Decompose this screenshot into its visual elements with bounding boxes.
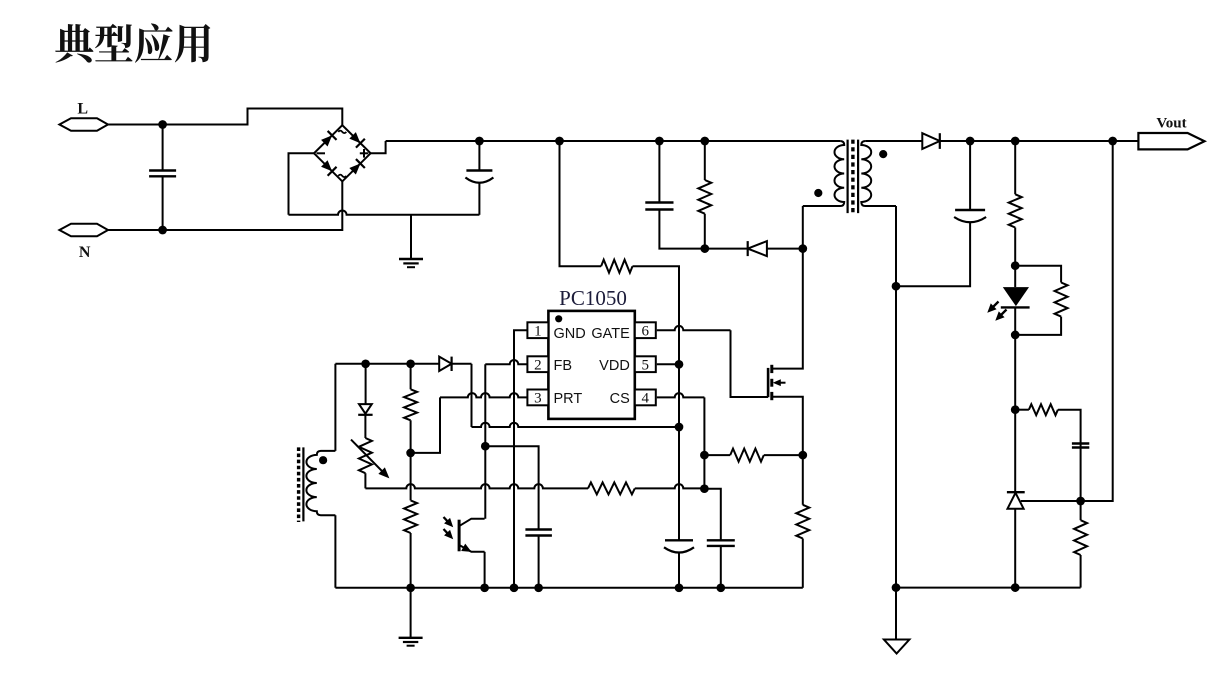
svg-text:3: 3 [534, 391, 542, 407]
pin 5 box [635, 356, 656, 372]
resistor R3 (LED series) [1014, 141, 1016, 194]
node gnd pin1 [510, 583, 519, 592]
diode D2 (output rectifier) [922, 133, 940, 149]
transformer T1 core [846, 140, 848, 214]
transistor Q2 (optocoupler photo-transistor) [458, 520, 461, 552]
wire long net with hops [365, 484, 588, 488]
wire aux top [335, 363, 365, 365]
svg-text:PC1050: PC1050 [559, 286, 627, 310]
shunt regulator U2 (TL431) [1014, 410, 1016, 492]
wire primary bottom to drain [802, 206, 804, 249]
svg-text:PRT: PRT [554, 391, 583, 407]
node VDD aux-diode junction [675, 423, 684, 432]
wire aux bottom to gnd rail [334, 515, 336, 588]
svg-text:4: 4 [642, 391, 650, 407]
wire L to bridge [108, 109, 342, 126]
node N-cap junction [158, 226, 167, 235]
diode D1 (clamp) [705, 248, 748, 250]
resistor R11 (CS filter) [704, 454, 730, 456]
node pin1 marker dot [555, 315, 562, 322]
node aux divider B [406, 359, 415, 368]
transformer T1 secondary winding [861, 141, 896, 206]
wire bridge DC- rail [289, 210, 480, 214]
ground (secondary, chassis triangle) [895, 588, 897, 640]
transformer T1 aux core [302, 447, 304, 521]
svg-text:Vout: Vout [1156, 116, 1186, 132]
resistor R2 (clamp/snubber) [704, 141, 706, 180]
svg-text:GATE: GATE [591, 326, 630, 342]
ground (primary rail) [410, 588, 412, 638]
terminal Vout [1138, 133, 1204, 149]
resistor R10 (horizontal) [588, 482, 635, 494]
node secondary gnd left [892, 583, 901, 592]
capacitor C7 (CS filter) [707, 539, 735, 541]
capacitor C5 (VDD electrolytic) [665, 539, 693, 541]
wire reg reference [1021, 141, 1113, 501]
pin 1 box [527, 322, 548, 338]
node reg anode gnd [1011, 583, 1020, 592]
node gnd comp cap [534, 583, 543, 592]
wire pin6 GATE [657, 326, 731, 330]
node comp network [1011, 405, 1020, 414]
node snubber RC junction [700, 244, 709, 253]
svg-text:VDD: VDD [599, 358, 630, 374]
wire secondary ground rail [896, 587, 1081, 589]
node gnd aux-res [406, 583, 415, 592]
wire pin2 FB [485, 360, 527, 364]
wire output rail [940, 140, 1139, 142]
node CS resistor left [700, 451, 709, 460]
wire pin3 PRT [440, 393, 527, 397]
transformer T1 aux winding [306, 451, 335, 515]
wire secondary top [865, 140, 922, 142]
wire bridge DC+ to rail [371, 141, 386, 153]
resistor R7 (adjustable/varistor) [364, 415, 366, 438]
node L-cap junction [158, 120, 167, 129]
resistor R8 (aux divider upper) [410, 364, 412, 390]
node Vout sense [1108, 137, 1117, 146]
transistor Q1 (power MOSFET) [767, 368, 770, 397]
capacitor C4 (compensation) [1072, 442, 1089, 444]
terminal N [59, 224, 108, 236]
node output cap [966, 137, 975, 146]
resistor R9 (aux divider lower) [410, 453, 412, 501]
pin 6 box [635, 322, 656, 338]
diode D4 (aux rectifier to VDD) [411, 363, 440, 365]
resistor R6 (reg lower) [1080, 501, 1082, 520]
pin 4 box [635, 390, 656, 406]
node gnd cs cap [716, 583, 725, 592]
svg-text:GND: GND [554, 326, 586, 342]
capacitor C6 (FB compensation) [485, 446, 538, 529]
ground (primary DC- earth) [410, 215, 412, 259]
svg-text:1: 1 [534, 323, 542, 339]
node secondary return [892, 282, 901, 291]
transformer T1 primary winding [803, 141, 844, 206]
svg-text:L: L [77, 101, 88, 118]
capacitor C3 (output electrolytic) [969, 141, 971, 210]
svg-text:2: 2 [534, 357, 542, 373]
wire VDD vertical [678, 364, 680, 540]
diode D5 (aux divider) [365, 364, 367, 404]
node aux phase dot [319, 456, 327, 464]
resistor R12 (source sense) [802, 455, 804, 505]
node drain/clamp junction [798, 244, 807, 253]
capacitor CX1 (input X-cap) [162, 125, 164, 171]
svg-text:FB: FB [554, 358, 573, 374]
node gnd opto emitter [480, 583, 489, 592]
node secondary phase dot [879, 150, 887, 158]
node LED anode [1011, 261, 1020, 270]
wire pin5 VDD [657, 363, 679, 365]
wire N to bridge [108, 181, 342, 230]
node PRT junction [406, 449, 415, 458]
wire adj resistor to PRT net [364, 473, 366, 488]
wire HV rail [386, 140, 841, 142]
node bulk cap [475, 137, 484, 146]
bridge rectifier BR1 [314, 125, 371, 181]
opto light arrows [444, 517, 451, 525]
node primary phase dot [814, 189, 822, 197]
resistor R5 (compensation) [1015, 409, 1029, 411]
svg-text:CS: CS [610, 391, 630, 407]
wire secondary bottom return [895, 206, 897, 588]
svg-text:6: 6 [642, 323, 650, 339]
node aux divider A [361, 359, 370, 368]
node CS filter junction [700, 484, 709, 493]
resistor R1 (startup, HV to VDD) [560, 141, 602, 266]
LED D3 (optocoupler emitter) [1014, 266, 1016, 287]
node FB branch [481, 442, 490, 451]
svg-text:N: N [79, 244, 91, 261]
node LED cathode [1011, 331, 1020, 340]
node snubber res tap [700, 137, 709, 146]
pin 3 box [527, 390, 548, 406]
node ref/comp junction [1076, 497, 1085, 506]
node VDD pin [675, 360, 684, 369]
node source sense [798, 451, 807, 460]
node gnd vdd cap [675, 583, 684, 592]
capacitor C1 (bulk electrolytic) [478, 141, 480, 171]
wire pin1 GND down [514, 330, 527, 588]
terminal L [59, 118, 108, 130]
capacitor C2 (clamp/snubber) [658, 141, 660, 203]
node startup resistor tap [555, 137, 564, 146]
wire aux diode to VDD [452, 363, 472, 365]
svg-text:5: 5 [642, 357, 650, 373]
wire pin4 CS [657, 393, 705, 397]
pin 2 box [527, 356, 548, 372]
node feedback divider top [1011, 137, 1020, 146]
resistor R4 (parallel to LED) [1015, 266, 1061, 283]
node snubber cap tap [655, 137, 664, 146]
title 典型应用 [55, 23, 210, 62]
wire primary ground rail [335, 587, 802, 589]
wire LED cathode to reg [1014, 335, 1016, 410]
wire CS filter down [704, 455, 720, 540]
